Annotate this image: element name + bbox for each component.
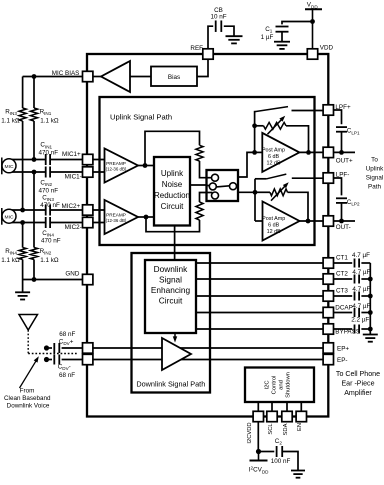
svg-text:Downlink Signal Path: Downlink Signal Path <box>136 380 205 389</box>
wire EP- line <box>49 359 52 361</box>
block mode selector switch <box>207 170 239 201</box>
capacitor C1 <box>276 26 289 28</box>
svg-text:To Cell Phone: To Cell Phone <box>336 370 380 378</box>
arrow pot1 <box>268 118 284 134</box>
wire ch2 input vertical <box>254 179 256 221</box>
svg-text:Uplink: Uplink <box>161 169 184 178</box>
svg-text:SDA: SDA <box>283 423 289 435</box>
svg-text:10 nF: 10 nF <box>210 14 226 21</box>
arrow pot2 <box>271 184 287 200</box>
wire MIC2+ line <box>9 209 45 211</box>
node PREAMP1 out <box>143 163 148 168</box>
svg-text:(12-36 dB): (12-36 dB) <box>106 218 127 223</box>
svg-text:1.1 kΩ: 1.1 kΩ <box>40 118 59 125</box>
capacitor DCAP 4.7uF <box>354 308 356 317</box>
svg-text:Post Amp: Post Amp <box>262 147 285 153</box>
capacitor CT1 4.7uF <box>354 259 356 268</box>
wire RIN4 to gnd rail <box>22 260 24 280</box>
svg-text:MIC: MIC <box>5 214 14 220</box>
svg-text:From: From <box>20 388 35 395</box>
svg-text:Ear -Piece: Ear -Piece <box>341 379 374 387</box>
ground CB <box>226 35 243 37</box>
svg-text:CT2: CT2 <box>336 271 348 278</box>
svg-text:CT3: CT3 <box>336 288 348 295</box>
svg-text:MIC BIAS: MIC BIAS <box>52 70 80 77</box>
ground mic network <box>15 291 30 293</box>
resistor RIN4 <box>19 248 26 260</box>
wire CT1 <box>196 262 323 264</box>
resistor RIN2 <box>30 248 37 260</box>
svg-text:MIC2-: MIC2- <box>65 224 82 231</box>
wire PREAMP1 out to NR box <box>138 165 154 167</box>
resistor RIN3 <box>19 108 26 121</box>
svg-text:Clean Baseband: Clean Baseband <box>4 395 51 402</box>
wire RIN2 to gnd rail <box>33 260 35 280</box>
svg-text:GND: GND <box>65 271 79 278</box>
wire CB to ground <box>224 26 234 36</box>
pin OUT- <box>323 216 333 226</box>
svg-text:Post Amp: Post Amp <box>262 216 285 222</box>
pin DCAP <box>323 307 333 317</box>
wire MIC1- line <box>9 171 45 173</box>
svg-text:Bias: Bias <box>168 74 180 81</box>
svg-text:Reduction: Reduction <box>154 191 190 200</box>
pin GND <box>83 274 93 284</box>
capacitor CIN1 <box>45 154 47 165</box>
svg-text:6 dB: 6 dB <box>268 154 279 160</box>
wire REF pin to CB <box>208 26 213 49</box>
pin CT1 <box>323 258 333 268</box>
svg-text:Control: Control <box>272 376 278 395</box>
pin EP+ <box>323 343 333 353</box>
capacitor CDV- <box>53 355 55 365</box>
svg-text:Path: Path <box>368 184 381 191</box>
node ch2 pot tap <box>253 190 258 195</box>
svg-text:470 nF: 470 nF <box>40 202 60 209</box>
svg-text:12 dB: 12 dB <box>267 229 281 235</box>
wire I2C box to SDA pin <box>286 402 288 412</box>
ground C1 <box>274 41 290 43</box>
pin MIC1- <box>83 167 93 177</box>
capacitor BYPASS 2.2uF <box>354 325 356 334</box>
wire pot1 to output node <box>286 126 309 153</box>
block Uplink Noise Reduction Circuit <box>154 157 190 226</box>
wire Bias box to REF pin <box>197 59 208 77</box>
wire stub contact 3 <box>207 192 213 194</box>
wire dashed feed line <box>28 353 77 355</box>
svg-text:4.7 µF: 4.7 µF <box>352 252 370 259</box>
op-amp downlink output amp <box>162 338 191 370</box>
resistor RIN1 <box>30 108 37 121</box>
node CDV- input <box>44 357 49 362</box>
wire switch SW2 left <box>255 178 267 180</box>
wire DCAP external <box>334 312 353 314</box>
node bus CT2 <box>368 277 373 282</box>
wire PREAMP2 out to NR box <box>138 216 154 218</box>
svg-text:To: To <box>371 157 378 164</box>
pin BYPASS <box>323 324 333 334</box>
wire stub contact 1 <box>207 177 213 179</box>
svg-text:4.7 µF: 4.7 µF <box>352 286 370 293</box>
node VDD junction <box>310 19 315 24</box>
svg-text:Downlink: Downlink <box>154 264 189 274</box>
capacitor CT3 4.7uF <box>354 292 356 301</box>
wire OUT+ external <box>334 151 356 153</box>
node RIN4-MIC2- <box>20 220 25 225</box>
wire BYPASS <box>196 328 323 330</box>
wire LPF+ to CLP1 <box>334 110 342 124</box>
svg-text:and: and <box>279 380 285 390</box>
ground CT bus <box>363 334 378 336</box>
svg-text:Shutdown: Shutdown <box>286 372 292 398</box>
svg-text:1.1 kΩ: 1.1 kΩ <box>1 118 20 125</box>
wire bias amp to Bias box <box>130 76 151 78</box>
pin MIC2+ <box>83 205 93 215</box>
node RIN3-MIC2+ <box>20 208 25 213</box>
wire CT3 external <box>334 295 353 297</box>
op-amp Post Amp 2 <box>255 220 263 222</box>
svg-text:OUT-: OUT- <box>336 224 351 231</box>
svg-text:1.1 kΩ: 1.1 kΩ <box>40 257 59 264</box>
node postamp1 out <box>306 150 311 155</box>
svg-text:4.7 µF: 4.7 µF <box>352 303 370 310</box>
wire PREAMP1 feedback loop <box>145 131 200 165</box>
wire NR circuit to downlink enhancer <box>174 226 176 261</box>
node postamp2 out <box>306 219 311 224</box>
svg-text:DCAP: DCAP <box>335 305 353 312</box>
contact 3 <box>212 192 219 199</box>
capacitor CLP2 <box>336 197 347 199</box>
op-amp PREAMP1 <box>105 149 139 183</box>
wire I2CVDD pin down <box>257 422 259 452</box>
wire MIC2- to RIN4 <box>22 223 24 248</box>
wire CLP1 to OUT+ wire <box>341 132 343 153</box>
pin MIC2- <box>83 217 93 227</box>
wire selector to ch2 node <box>238 191 255 193</box>
svg-text:68 nF: 68 nF <box>59 331 75 338</box>
pin EP- <box>323 354 333 364</box>
svg-text:Signal: Signal <box>366 175 384 182</box>
pin CDV- <box>83 354 93 364</box>
svg-text:EN: EN <box>297 423 303 431</box>
wire MIC1- to RIN2 <box>33 172 35 248</box>
power VDD symbol <box>305 8 322 10</box>
wire BYPASS external <box>334 328 353 330</box>
svg-text:MIC1+: MIC1+ <box>62 151 81 158</box>
potentiometer pot1 <box>264 122 287 129</box>
capacitor CLP1 <box>336 126 347 128</box>
contact 2 <box>209 183 216 190</box>
wire postamp2 out to OUT- pin <box>300 220 324 222</box>
node PREAMP2 out <box>144 215 149 220</box>
ground C2 <box>291 470 305 472</box>
wire C2 to ground <box>282 452 298 471</box>
capacitor CT2 4.7uF <box>354 275 356 284</box>
pin EN <box>296 411 306 421</box>
svg-text:Circuit: Circuit <box>161 202 184 211</box>
svg-text:Enhancing: Enhancing <box>151 285 191 295</box>
op-amp bias buffer <box>101 61 130 92</box>
resistor feedback R1 <box>196 145 203 161</box>
wire MIC BIAS pin to bias amp <box>92 76 101 78</box>
wire DCAP cap to bus <box>361 312 370 314</box>
svg-text:LPF+: LPF+ <box>335 104 351 111</box>
svg-text:1.1 kΩ: 1.1 kΩ <box>1 257 20 264</box>
node I2CVDD junction <box>256 449 261 454</box>
svg-text:Circuit: Circuit <box>159 296 183 306</box>
node ch1 pot tap <box>252 123 257 128</box>
U1 main IC outline <box>87 54 328 417</box>
wire I2C box to EN pin <box>300 402 302 412</box>
wire DCAP <box>196 312 323 314</box>
svg-text:Uplink: Uplink <box>366 166 384 173</box>
antenna clean voice source <box>19 315 38 331</box>
node ch1 postamp input <box>252 150 257 155</box>
svg-text:Uplink Signal Path: Uplink Signal Path <box>110 113 172 122</box>
wire CT3 <box>196 295 323 297</box>
node RIN2-gnd rail <box>32 277 37 282</box>
node CLP2-OUT- <box>339 219 344 224</box>
pin LPF- <box>323 173 333 183</box>
pin SCL <box>267 411 277 421</box>
arrow enhancer to downlink amp <box>174 333 176 339</box>
pin MIC BIAS <box>83 71 93 81</box>
pin SDA <box>282 411 292 421</box>
potentiometer pot2 <box>270 189 288 196</box>
wire LPF- to CLP2 <box>334 178 342 195</box>
wire stub contact 2 <box>207 185 210 187</box>
pin CT2 <box>323 274 333 284</box>
svg-text:470 nF: 470 nF <box>41 238 61 245</box>
wire CLP2 to OUT- wire <box>341 203 343 221</box>
wire SW2 to LPF- pin <box>292 177 323 179</box>
capacitor CB <box>215 20 217 32</box>
svg-text:100 nF: 100 nF <box>271 458 291 465</box>
wire NR box to selector contact 2 <box>190 184 210 186</box>
wire MIC BIAS rail <box>23 76 83 78</box>
capacitor C2 <box>276 446 278 457</box>
wire OUT- external <box>334 220 356 222</box>
wire CT2 external <box>334 278 353 280</box>
wire MIC1+ line <box>9 159 45 161</box>
capacitor CIN4 <box>45 217 47 228</box>
wire R1 to selector contact 1 <box>200 161 213 178</box>
capacitor CDV+ <box>53 343 55 353</box>
svg-text:4.7 µF: 4.7 µF <box>352 269 370 276</box>
capacitor CIN3 <box>45 205 47 216</box>
block Downlink Signal Path <box>132 253 211 393</box>
switch SW1 blade <box>255 107 288 112</box>
svg-text:I2C: I2C <box>265 380 271 389</box>
block I2C Control and Shutdown <box>245 368 314 403</box>
svg-text:EP+: EP+ <box>337 345 349 352</box>
wire MIC2- line <box>9 222 45 224</box>
svg-text:EP-: EP- <box>337 357 348 364</box>
svg-text:2.2 µF: 2.2 µF <box>351 316 369 323</box>
wire postamp1 out to OUT+ pin <box>299 151 323 153</box>
pin REF <box>203 49 213 59</box>
svg-text:PREAMP: PREAMP <box>106 212 126 217</box>
block Uplink Signal Path <box>100 97 315 245</box>
svg-text:6 dB: 6 dB <box>268 223 279 229</box>
wire RIN1 to MIC1+ node <box>33 121 35 160</box>
svg-text:OUT+: OUT+ <box>336 157 353 164</box>
svg-text:Signal: Signal <box>159 275 182 285</box>
svg-text:68 nF: 68 nF <box>59 372 75 379</box>
svg-text:(12-36 dB): (12-36 dB) <box>106 167 127 172</box>
node RIN1-MIC1+ <box>32 157 37 162</box>
svg-text:BYPASS: BYPASS <box>335 329 360 336</box>
wire CT1 external <box>334 262 353 264</box>
svg-text:SCL: SCL <box>268 423 274 435</box>
svg-text:PREAMP: PREAMP <box>106 161 126 166</box>
pin VDD <box>307 49 317 59</box>
svg-text:470 nF: 470 nF <box>39 187 59 194</box>
pin CT3 <box>323 291 333 301</box>
wire selector blade <box>216 186 229 187</box>
wire RIN1 upper segment <box>33 77 35 109</box>
svg-text:470 nF: 470 nF <box>39 149 59 156</box>
wire SW1 to LPF+ pin <box>292 110 324 112</box>
op-amp PREAMP2 <box>105 200 139 234</box>
wire RIN3 to MIC2+ node <box>22 121 24 210</box>
wire ch1 input vertical <box>254 111 256 153</box>
pin CDV+ <box>83 343 93 353</box>
wire CT2 <box>196 278 323 280</box>
wire junction to C2 <box>259 451 275 453</box>
node RIN2-MIC1- <box>32 170 37 175</box>
block Bias <box>151 67 197 87</box>
arrow from-clean-baseband callout <box>20 359 38 388</box>
resistor feedback R2 <box>196 202 203 220</box>
wire C1 to ground <box>281 32 283 42</box>
wire antenna dashed stem <box>27 330 29 354</box>
wire CT3 cap to bus <box>361 295 370 297</box>
svg-text:MIC1-: MIC1- <box>65 174 82 181</box>
wire gnd rail stub <box>22 280 24 293</box>
op-amp Post Amp 1 <box>255 151 263 153</box>
pin I2CVDD <box>253 411 263 421</box>
switch SW2 blade <box>267 174 287 179</box>
pin LPF+ <box>323 105 333 115</box>
svg-text:REF: REF <box>190 45 203 52</box>
svg-text:I2CVDD: I2CVDD <box>247 422 253 443</box>
wire BYPASS cap to bus <box>361 328 370 330</box>
svg-text:LPF-: LPF- <box>336 172 350 179</box>
svg-text:Downlink Voice: Downlink Voice <box>7 402 50 409</box>
node bus CT3 <box>368 294 373 299</box>
pin OUT+ <box>323 147 333 157</box>
svg-text:MIC: MIC <box>5 164 14 170</box>
svg-text:12 dB: 12 dB <box>266 160 280 166</box>
power I2CVDD rail symbol <box>258 452 260 460</box>
wire CT2 cap to bus <box>361 278 370 280</box>
svg-text:MIC2+: MIC2+ <box>61 203 80 210</box>
svg-text:Noise: Noise <box>162 180 183 189</box>
microphone MIC2 <box>2 209 16 223</box>
svg-text:CT1: CT1 <box>336 255 348 262</box>
node CLP1-OUT+ <box>339 150 344 155</box>
block Downlink Signal Enhancing Circuit <box>145 260 196 333</box>
wire selector to postamp1 input <box>238 152 255 177</box>
node CDV+ input <box>44 345 49 350</box>
wire CT1 cap to bus <box>361 262 370 264</box>
svg-text:1 µF: 1 µF <box>261 34 274 41</box>
node bias-RIN1 junction <box>32 74 37 79</box>
wire pot2 to output node <box>288 192 309 221</box>
wire R2 to selector contact 3 <box>200 193 213 203</box>
wire C1 to VDD node <box>282 22 313 25</box>
wire RIN3 upper segment <box>22 77 24 109</box>
wire ground rail to GND pin <box>23 279 83 281</box>
contact 1 <box>212 174 219 181</box>
svg-text:VDD: VDD <box>320 45 334 52</box>
svg-text:Amplifier: Amplifier <box>344 389 372 397</box>
pin MIC1+ <box>83 154 93 164</box>
wire PREAMP2 feedback loop <box>146 217 200 232</box>
wire pot1 left <box>255 125 264 127</box>
capacitor CIN2 <box>45 167 47 178</box>
microphone MIC1 <box>2 159 16 173</box>
wire I2C box to I2CVDD pin <box>257 402 259 412</box>
contact 4 pole <box>230 183 237 190</box>
node bus BYPASS <box>368 327 373 332</box>
node bus DCAP <box>368 310 373 315</box>
wire pot2 left <box>255 191 270 193</box>
wire CT ground bus <box>369 263 371 335</box>
wire EP+ line <box>49 347 52 349</box>
wire I2C box to SCL pin <box>271 402 273 412</box>
